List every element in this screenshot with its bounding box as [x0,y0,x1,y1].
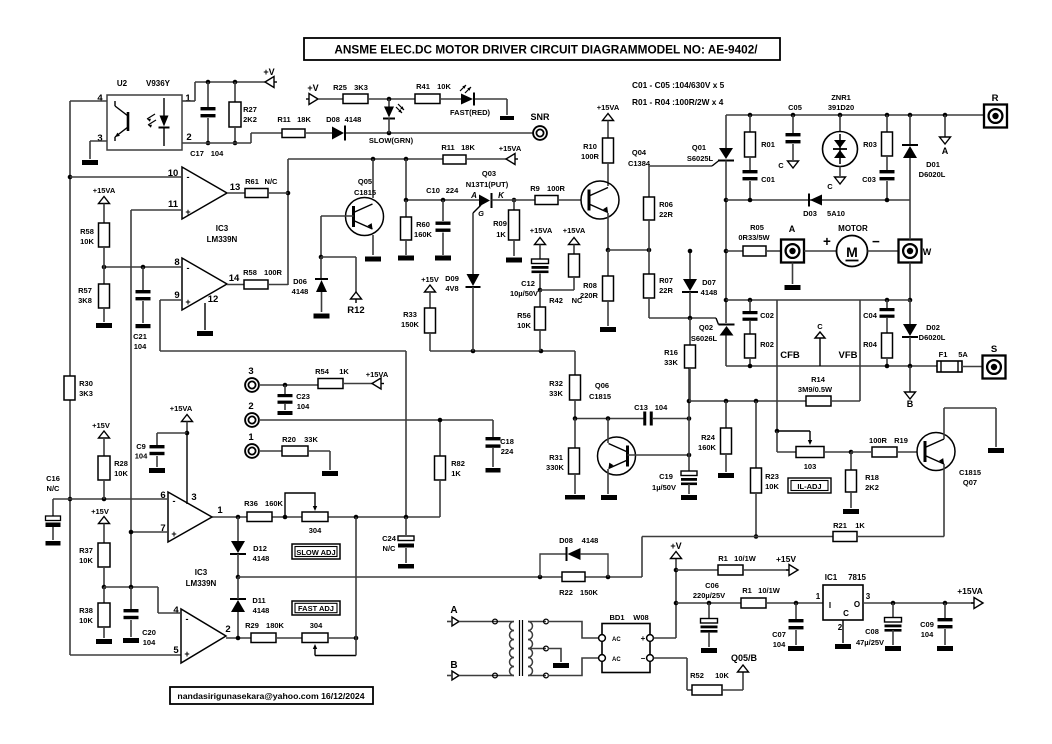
svg-text:R56: R56 [517,311,531,320]
svg-text:10K: 10K [437,82,451,91]
svg-text:R07: R07 [659,276,673,285]
svg-text:D6020L: D6020L [919,170,946,179]
svg-text:D11: D11 [252,596,265,605]
svg-text:R03: R03 [863,140,877,149]
svg-text:C1815: C1815 [589,392,611,401]
svg-text:100R: 100R [547,184,566,193]
svg-text:C01 - C05 :104/630V x 5: C01 - C05 :104/630V x 5 [632,80,725,90]
svg-text:R19: R19 [894,436,908,445]
svg-text:R02: R02 [760,340,774,349]
svg-text:150K: 150K [401,320,420,329]
svg-text:3: 3 [191,492,196,503]
svg-text:C: C [827,182,833,191]
svg-text:13: 13 [230,182,241,193]
svg-text:33K: 33K [304,435,318,444]
svg-text:R24: R24 [701,433,716,442]
svg-text:C10: C10 [426,186,440,195]
svg-text:10µ/50V: 10µ/50V [510,289,538,298]
svg-text:1: 1 [248,432,254,443]
svg-text:AC: AC [612,637,621,643]
svg-text:10/1W: 10/1W [758,586,781,595]
svg-text:C18: C18 [500,437,514,446]
svg-text:3K3: 3K3 [354,83,368,92]
svg-text:N/C: N/C [265,177,279,186]
svg-text:C13: C13 [634,403,648,412]
svg-text:A: A [789,224,796,234]
svg-text:4148: 4148 [253,606,270,615]
svg-text:W: W [923,247,932,257]
svg-text:10K: 10K [517,321,531,330]
svg-text:LM339N: LM339N [207,235,238,244]
svg-text:104: 104 [143,638,156,647]
svg-text:10K: 10K [79,616,93,625]
svg-text:R9: R9 [530,184,540,193]
svg-text:B: B [907,399,914,409]
svg-text:R25: R25 [333,83,347,92]
svg-text:2: 2 [248,401,253,412]
svg-text:R10: R10 [583,142,597,151]
svg-text:R14: R14 [811,375,826,384]
svg-text:C08: C08 [865,627,879,636]
svg-text:160K: 160K [265,499,284,508]
svg-text:Q06: Q06 [595,381,609,390]
svg-text:D6020L: D6020L [919,333,946,342]
svg-text:+: + [171,529,176,539]
svg-text:S6026L: S6026L [691,334,718,343]
svg-text:Q04: Q04 [632,148,647,157]
svg-text:C03: C03 [862,175,876,184]
svg-text:1K: 1K [496,230,506,239]
svg-text:4V8: 4V8 [445,284,458,293]
svg-text:BD1: BD1 [609,613,624,622]
svg-text:10K: 10K [79,556,93,565]
svg-text:-: - [173,496,176,506]
svg-text:−: − [872,234,880,249]
svg-text:IC3: IC3 [195,568,208,577]
svg-text:R12: R12 [347,305,364,316]
svg-text:R32: R32 [549,379,563,388]
svg-text:22R: 22R [659,286,673,295]
svg-text:C01: C01 [761,175,775,184]
svg-text:2: 2 [225,624,230,635]
svg-text:104: 104 [655,403,668,412]
svg-text:D03: D03 [803,209,817,218]
svg-text:+V: +V [307,83,318,93]
svg-text:1K: 1K [339,367,349,376]
svg-text:14: 14 [229,273,240,284]
svg-text:C9: C9 [136,442,146,451]
svg-text:C: C [817,322,823,331]
svg-text:O: O [854,600,860,609]
svg-text:330K: 330K [546,463,565,472]
svg-text:R16: R16 [664,348,678,357]
svg-text:+15V: +15V [91,507,109,516]
svg-text:3: 3 [97,133,102,144]
svg-text:C06: C06 [705,581,719,590]
svg-text:Q05: Q05 [358,177,372,186]
svg-text:160K: 160K [414,230,433,239]
svg-text:4148: 4148 [345,115,362,124]
svg-text:5A10: 5A10 [827,209,845,218]
svg-text:10K: 10K [715,671,729,680]
svg-text:12: 12 [208,294,219,305]
svg-text:C02: C02 [760,311,774,320]
svg-text:R20: R20 [282,435,296,444]
svg-text:R42: R42 [549,296,563,305]
svg-text:R1: R1 [718,554,728,563]
svg-text:G: G [478,209,484,218]
svg-text:104: 104 [134,342,147,351]
svg-text:A: A [942,146,949,156]
svg-text:D08: D08 [326,115,340,124]
svg-text:R60: R60 [416,220,430,229]
svg-text:R57: R57 [78,286,92,295]
svg-text:C16: C16 [46,474,60,483]
svg-text:R58: R58 [80,227,94,236]
svg-text:+15VA: +15VA [93,186,116,195]
svg-text:M: M [846,244,858,260]
svg-text:+15VA: +15VA [563,226,586,235]
svg-text:ANSME ELEC.DC MOTOR DRIVER CIR: ANSME ELEC.DC MOTOR DRIVER CIRCUIT DIAGR… [334,43,758,57]
svg-text:ZNR1: ZNR1 [831,93,851,102]
svg-text:+15V: +15V [776,554,796,564]
svg-text:N/C: N/C [47,484,61,493]
svg-text:C1815: C1815 [354,188,376,197]
svg-text:R11: R11 [277,115,290,124]
svg-text:D07: D07 [702,278,716,287]
svg-text:C09: C09 [920,620,934,629]
svg-text:+15VA: +15VA [530,226,553,235]
svg-text:7815: 7815 [848,573,866,582]
svg-text:4: 4 [173,605,179,616]
svg-text:2K2: 2K2 [865,483,879,492]
svg-text:−: − [641,654,646,663]
svg-text:R28: R28 [114,459,128,468]
svg-text:4148: 4148 [292,287,309,296]
svg-text:R: R [992,93,999,104]
svg-text:C07: C07 [772,630,786,639]
svg-text:LM339N: LM339N [186,579,217,588]
svg-text:+15VA: +15VA [499,144,522,153]
svg-text:1K: 1K [451,469,461,478]
svg-text:33K: 33K [664,358,678,367]
svg-text:C19: C19 [659,472,673,481]
svg-text:R37: R37 [79,546,93,555]
svg-text:Q05/B: Q05/B [731,653,758,663]
svg-text:+: + [185,207,190,217]
svg-text:D08: D08 [559,536,573,545]
svg-text:+: + [641,634,646,643]
svg-text:R82: R82 [451,459,465,468]
svg-text:10K: 10K [765,482,779,491]
svg-text:3K8: 3K8 [78,296,92,305]
svg-text:R54: R54 [315,367,330,376]
svg-text:V936Y: V936Y [146,79,171,88]
svg-text:C1384: C1384 [628,159,651,168]
svg-text:Q02: Q02 [699,323,713,332]
svg-text:R27: R27 [243,105,257,114]
svg-text:+V: +V [670,541,681,551]
svg-text:100R: 100R [264,268,283,277]
svg-text:4148: 4148 [701,288,718,297]
svg-text:R08: R08 [583,281,597,290]
svg-text:104: 104 [921,630,934,639]
svg-text:D09: D09 [445,274,459,283]
svg-text:100R: 100R [869,436,888,445]
svg-text:VFB: VFB [839,350,858,361]
svg-text:1µ/50V: 1µ/50V [652,483,676,492]
svg-text:IC1: IC1 [825,573,838,582]
svg-text:304: 304 [309,526,322,535]
svg-text:MOTOR: MOTOR [838,224,868,233]
svg-text:2K2: 2K2 [243,115,257,124]
svg-text:3: 3 [248,366,253,377]
svg-text:18K: 18K [461,143,475,152]
svg-text:R38: R38 [79,606,93,615]
svg-text:C17: C17 [190,149,204,158]
svg-text:Q07: Q07 [963,478,977,487]
svg-text:10K: 10K [80,237,94,246]
svg-text:47µ/25V: 47µ/25V [856,638,884,647]
svg-text:4: 4 [97,93,103,104]
svg-text:-: - [186,614,189,624]
svg-text:1: 1 [217,505,223,516]
svg-text:-: - [187,172,190,182]
svg-text:R58: R58 [243,268,257,277]
svg-text:R31: R31 [549,453,563,462]
svg-text:R01: R01 [761,140,775,149]
svg-text:R41: R41 [416,82,430,91]
svg-text:18K: 18K [297,115,311,124]
svg-text:1: 1 [185,93,191,104]
svg-text:100R: 100R [581,152,600,161]
svg-text:nandasirigunasekara@yahoo.com: nandasirigunasekara@yahoo.com 16/12/2024 [177,691,364,701]
svg-text:R33: R33 [403,310,417,319]
svg-text:D06: D06 [293,277,307,286]
svg-text:S: S [991,344,997,355]
svg-text:C04: C04 [863,311,878,320]
svg-text:R22: R22 [559,588,573,597]
svg-text:SLOW ADJ: SLOW ADJ [296,548,335,557]
svg-text:10K: 10K [114,469,128,478]
svg-text:+15VA: +15VA [597,103,620,112]
svg-text:A: A [450,605,457,616]
svg-text:104: 104 [773,640,786,649]
svg-text:180K: 180K [266,621,285,630]
svg-text:CFB: CFB [780,350,800,361]
svg-text:N/C: N/C [383,544,397,553]
svg-text:R36: R36 [244,499,258,508]
svg-text:N13T1(PUT): N13T1(PUT) [466,180,509,189]
svg-text:B: B [450,660,457,671]
svg-text:C: C [843,609,849,618]
svg-text:R21: R21 [833,521,847,530]
svg-text:R52: R52 [690,671,704,680]
svg-text:+V: +V [263,67,274,77]
svg-text:4148: 4148 [582,536,599,545]
svg-text:160K: 160K [698,443,717,452]
svg-text:5: 5 [173,645,179,656]
svg-text:R06: R06 [659,200,673,209]
svg-text:103: 103 [804,462,817,471]
svg-text:2: 2 [186,132,191,143]
svg-text:104: 104 [297,402,310,411]
svg-text:R61: R61 [245,177,259,186]
svg-text:3: 3 [866,592,871,601]
svg-text:Q01: Q01 [692,143,706,152]
svg-text:C23: C23 [296,392,310,401]
svg-text:C12: C12 [521,279,535,288]
svg-text:C24: C24 [382,534,397,543]
svg-text:I: I [829,601,831,610]
svg-text:220µ/25V: 220µ/25V [693,591,725,600]
svg-text:220R: 220R [580,291,599,300]
svg-text:4148: 4148 [253,554,270,563]
svg-text:150K: 150K [580,588,599,597]
svg-text:11: 11 [168,199,179,210]
svg-text:+15V: +15V [421,275,439,284]
svg-text:-: - [187,263,190,273]
svg-text:IL-ADJ: IL-ADJ [797,482,821,491]
svg-text:33K: 33K [549,389,563,398]
svg-text:FAST ADJ: FAST ADJ [298,604,334,613]
svg-text:R1: R1 [742,586,752,595]
svg-text:R29: R29 [245,621,259,630]
svg-text:+: + [184,649,189,659]
svg-text:1K: 1K [855,521,865,530]
svg-text:R23: R23 [765,472,779,481]
svg-text:AC: AC [612,657,621,663]
svg-text:D02: D02 [926,323,940,332]
svg-text:D12: D12 [253,544,267,553]
svg-text:391D20: 391D20 [828,103,854,112]
svg-text:224: 224 [446,186,459,195]
svg-text:104: 104 [211,149,224,158]
svg-text:0R33/5W: 0R33/5W [738,233,770,242]
svg-text:10/1W: 10/1W [734,554,757,563]
svg-text:SLOW(GRN): SLOW(GRN) [369,136,414,145]
svg-text:1: 1 [816,592,821,601]
svg-text:2: 2 [838,623,843,632]
svg-text:R05: R05 [750,223,764,232]
svg-text:R30: R30 [79,379,93,388]
svg-text:R18: R18 [865,473,879,482]
svg-text:C05: C05 [788,103,802,112]
svg-text:R11: R11 [441,143,454,152]
svg-text:+15V: +15V [92,421,110,430]
svg-text:5A: 5A [958,350,968,359]
svg-text:FAST(RED): FAST(RED) [450,108,491,117]
svg-text:+: + [823,234,831,249]
svg-text:+15VA: +15VA [957,586,983,596]
svg-text:A: A [470,191,477,200]
svg-text:R09: R09 [493,219,507,228]
svg-text:F1: F1 [939,350,948,359]
svg-text:+: + [185,297,190,307]
svg-text:224: 224 [501,447,514,456]
svg-text:+15VA: +15VA [366,370,389,379]
svg-text:R01 - R04 :100R/2W x 4: R01 - R04 :100R/2W x 4 [632,97,724,107]
svg-text:+15VA: +15VA [170,404,193,413]
svg-text:3K3: 3K3 [79,389,93,398]
svg-text:C1815: C1815 [959,468,981,477]
svg-text:D01: D01 [926,160,940,169]
svg-text:Q03: Q03 [482,169,496,178]
svg-text:104: 104 [135,452,148,461]
svg-text:304: 304 [310,621,323,630]
svg-text:C: C [778,161,784,170]
svg-text:S6025L: S6025L [687,154,714,163]
svg-text:C20: C20 [142,628,156,637]
svg-text:R04: R04 [863,340,878,349]
svg-text:IC3: IC3 [216,224,229,233]
svg-text:3M9/0.5W: 3M9/0.5W [798,385,833,394]
svg-text:22R: 22R [659,210,673,219]
svg-text:W08: W08 [633,613,648,622]
svg-text:U2: U2 [117,79,128,88]
svg-text:SNR: SNR [530,112,550,122]
svg-text:C21: C21 [133,332,147,341]
